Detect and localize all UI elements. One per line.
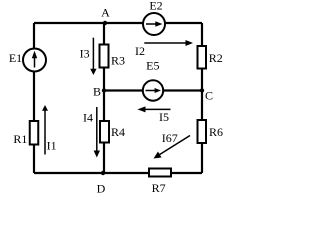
svg-text:E2: E2 [149,0,162,12]
svg-text:R2: R2 [209,51,223,65]
svg-text:I5: I5 [159,110,169,124]
svg-text:R7: R7 [152,181,166,195]
svg-text:I4: I4 [83,111,93,125]
svg-text:D: D [97,182,106,196]
svg-text:I3: I3 [80,46,90,60]
svg-text:E5: E5 [146,59,159,73]
svg-text:I67: I67 [162,131,178,145]
svg-text:A: A [101,6,110,20]
svg-text:R6: R6 [209,125,223,139]
svg-text:C: C [205,89,213,103]
svg-text:I1: I1 [47,139,57,153]
svg-text:B: B [93,85,101,99]
svg-text:R1: R1 [13,132,27,146]
svg-text:R3: R3 [111,53,125,67]
svg-text:I2: I2 [135,44,145,58]
svg-text:E1: E1 [9,51,22,65]
svg-text:R4: R4 [111,125,125,139]
